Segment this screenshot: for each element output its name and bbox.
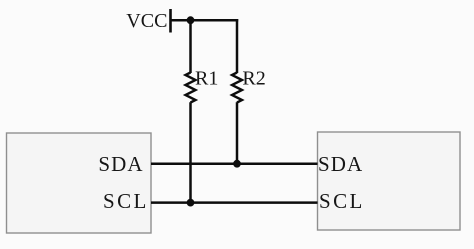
svg-text:SDA: SDA [318,152,363,176]
svg-text:VCC: VCC [126,10,167,32]
wire: R1 top lead [189,20,192,73]
pin label SCL (left device) [103,189,149,213]
resistor R1 [186,73,196,103]
label R2 [242,68,265,90]
right device box [318,132,461,230]
svg-text:R1: R1 [195,68,218,90]
wire: R2 top lead [236,19,239,73]
label R1 [195,68,218,90]
pin label SCL (right device) [319,189,365,213]
svg-text:R2: R2 [242,68,265,90]
wire: R2 bottom lead [236,102,239,164]
resistor R2 [232,73,242,103]
VCC label [126,10,167,32]
VCC terminal bar [169,9,172,33]
svg-text:SCL: SCL [103,189,149,213]
pin label SDA (right device) [318,152,363,176]
junction dot: R1 / SCL net [187,199,195,207]
wire: R1 bottom lead [189,102,192,202]
svg-text:SDA: SDA [98,152,143,176]
junction dot: R2 / SDA net [233,160,241,168]
junction dot: VCC rail / R1 lead [187,16,195,24]
wire: SDA net [151,162,318,165]
pin label SDA (left device) [98,152,143,176]
wire: VCC rail (horizontal) [171,19,239,22]
left device box [7,133,152,233]
wire: SCL net [151,201,318,204]
svg-text:SCL: SCL [319,189,365,213]
